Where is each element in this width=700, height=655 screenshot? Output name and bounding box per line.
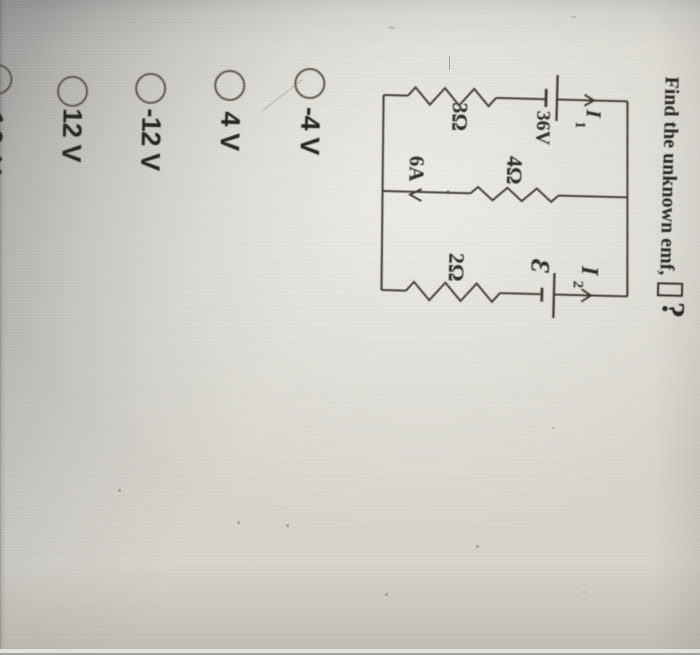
radio option C circle [135,72,167,104]
wire right branch middle [500,293,542,294]
radio option A label [295,107,323,155]
svg-text:36V: 36V [531,111,554,147]
radio option C label [136,108,165,171]
wire middle branch lower [383,191,471,193]
resistor R2 4ohm [470,187,558,202]
resistor R3 2ohm [406,282,500,302]
wire top (node a to node c) [622,102,632,297]
svg-text:2: 2 [570,281,586,289]
arrow I2 current up [581,289,591,302]
wire middle branch upper [558,196,627,198]
radio option E circle (cut off) [0,64,12,96]
battery B1 36V long plate [556,75,557,121]
svg-text:3Ω: 3Ω [447,102,473,131]
radio option E label (cut off) [0,99,7,177]
radio option D label [58,108,86,162]
radio option A circle [294,67,326,99]
small scratch top middle [449,56,450,70]
arrow I1 current up [584,95,594,106]
wire left branch middle [496,98,546,99]
radio option B circle [214,70,246,102]
hairline scratch near first option [261,79,303,112]
dust specks [118,489,121,492]
svg-text:Ɛ: Ɛ [525,259,554,274]
question text [655,76,689,318]
wire right branch lower [381,289,405,292]
battery B2 emf long plate [553,273,554,318]
wire left branch upper [557,100,627,102]
svg-text:6A: 6A [404,156,429,183]
svg-text:I: I [582,108,606,119]
arrow 6A current down [410,189,422,201]
radio option B label [215,111,243,151]
svg-text:4Ω: 4Ω [502,156,528,185]
wire left branch lower [384,94,408,97]
svg-text:I: I [576,265,602,278]
wire right branch upper [554,295,627,297]
svg-text:2Ω: 2Ω [444,253,470,282]
radio option D circle [56,75,88,107]
battery B1 36V short plate [544,89,547,107]
wire bottom (node b to node d) [378,95,386,290]
junction dot middle branch [446,191,449,194]
battery B2 emf short plate [540,288,543,302]
svg-text:1: 1 [572,121,588,129]
resistor R1 3ohm [408,87,496,106]
